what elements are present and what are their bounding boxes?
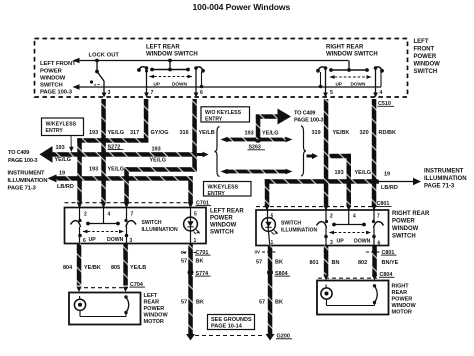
label 57 BK upper left [181,259,203,265]
see grounds box [208,315,255,330]
svg-text:6: 6 [200,90,203,96]
svg-text:WINDOW SWITCH: WINDOW SWITCH [326,52,378,58]
right switch interior contacts [317,210,384,246]
svg-text:193: 193 [245,131,254,137]
ground dashed link [195,335,264,337]
svg-text:DOWN: DOWN [172,82,187,87]
svg-text:4: 4 [108,212,111,218]
svg-text:YE/LG: YE/LG [262,131,279,137]
label switch illumination (left box) [142,220,178,233]
svg-text:TO C409: TO C409 [8,150,29,156]
svg-text:4: 4 [380,90,383,96]
svg-text:PAGE 100-3: PAGE 100-3 [8,158,37,164]
svg-text:1: 1 [194,238,197,244]
label 193 YE/LG right drop [335,170,372,176]
value label 316 YE/LB [180,130,215,136]
lockout switch [90,59,104,85]
svg-text:LB/RD: LB/RD [57,184,74,190]
svg-text:SWITCH: SWITCH [142,220,162,226]
svg-text:804: 804 [63,265,73,271]
label left rear window switch [146,45,198,58]
pin arrows into right switch [264,205,376,211]
label switch illumination (right box) [281,221,317,234]
svg-text:3: 3 [108,90,111,96]
svg-text:WINDOW: WINDOW [210,223,237,229]
connector C701 lower crossing [181,250,211,256]
connector C704 [77,282,145,288]
value label 802 BN/YE [358,260,399,266]
svg-text:POWER: POWER [414,54,437,60]
wire 193 YE/LG drop to right switch pin 4 [330,154,352,207]
connector crossing right 0V [255,250,277,255]
svg-text:ILLUMINATION: ILLUMINATION [281,228,317,234]
svg-text:YE/LG: YE/LG [150,158,167,164]
wire 316 YE/LB vertical from pin 6 [192,99,197,172]
svg-text:ILLUMINATION: ILLUMINATION [142,227,178,233]
svg-text:POWER: POWER [40,69,63,75]
lockout pin 3 [102,81,111,98]
svg-text:57: 57 [256,260,262,266]
svg-text:POWER: POWER [392,297,413,303]
svg-text:BN/YE: BN/YE [382,260,399,266]
svg-text:YE/LG: YE/LG [355,170,372,176]
value label 805 YE/LB [111,265,146,271]
svg-text:DOWN: DOWN [354,239,371,245]
svg-text:WINDOW: WINDOW [414,62,441,68]
svg-text:317: 317 [130,130,139,136]
label left rear power window switch [210,209,244,236]
svg-text:ILLUMINATION: ILLUMINATION [8,178,48,184]
pin arrows into right motor [323,275,377,280]
svg-text:LEFT REAR: LEFT REAR [210,209,244,215]
svg-text:YE/LB: YE/LB [130,265,146,271]
svg-text:RIGHT REAR: RIGHT REAR [392,211,430,217]
wire 804 YE/BK [77,244,82,286]
svg-text:REAR: REAR [392,290,408,296]
wire 193 YE/LG bus to C409 [51,152,193,157]
label 57 BK lower left [181,300,204,306]
svg-text:LEFT FRONT: LEFT FRONT [40,61,76,67]
wire from S263 up to C409 arrow [256,114,278,139]
svg-text:SWITCH: SWITCH [281,221,301,227]
svg-text:POWER: POWER [392,219,415,225]
wire 316 YE/LB horizontal run [124,167,197,172]
wire 19 LB/RD illumination rail (left) [55,176,193,181]
wire 57 BK (right switch ground) [268,246,273,335]
svg-text:W/O KEYLESS: W/O KEYLESS [205,110,242,116]
right rear motor [321,284,377,305]
svg-text:PAGE 71-3: PAGE 71-3 [8,186,37,192]
svg-text:6: 6 [83,238,86,244]
svg-text:193: 193 [152,147,161,153]
label 19 LB/RD right [381,172,398,192]
connector C801 dashed line [256,201,392,207]
arrow to C409 page 100-3 (top right) [278,109,292,125]
svg-text:57: 57 [181,259,187,265]
box w/keyless entry (middle) [204,182,252,197]
svg-text:YE/LB: YE/LB [199,130,215,136]
wire 19 LB/RD drop to switch pin 5 [188,176,193,203]
svg-text:2: 2 [330,214,333,220]
connector C804 [318,272,395,278]
svg-text:YE/LG: YE/LG [108,167,125,173]
wire 319 YE/BK (pin5 to switch pin 2) [324,99,329,207]
svg-text:WINDOW: WINDOW [144,313,169,319]
svg-text:TO C409: TO C409 [294,111,315,117]
svg-text:J: J [281,115,284,121]
svg-text:801: 801 [310,260,319,266]
svg-text:WINDOW SWITCH: WINDOW SWITCH [146,52,198,58]
svg-text:PAGE 10-14: PAGE 10-14 [211,324,243,330]
svg-text:POWER: POWER [144,306,165,312]
svg-text:193: 193 [56,145,65,151]
stub arrow from bus into option bracket [197,152,209,158]
connector C801 lower crossing [366,250,397,256]
right rear power window motor box [317,281,389,315]
box w/keyless entry (left) [42,118,84,152]
label 57 BK lower right [259,300,283,306]
label left front power window switch (right of box) [414,39,441,75]
svg-text:LEFT: LEFT [144,293,158,299]
svg-text:BK: BK [275,300,283,306]
svg-text:W/KEYLESS: W/KEYLESS [46,122,77,128]
pin 5 arrow [323,90,333,98]
wire 317 GY/OG vertical from pin 7 [144,99,149,143]
connector C510 dashed box (left front power window switch assembly) [35,39,408,98]
svg-text:805: 805 [111,265,120,271]
svg-text:INSTRUMENT: INSTRUMENT [424,169,464,175]
svg-text:7: 7 [131,212,134,218]
label left front power window switch (inside box) [40,61,76,96]
svg-text:UP: UP [89,237,97,243]
svg-text:RIGHT: RIGHT [392,284,410,290]
svg-text:193: 193 [335,170,344,176]
box w/o keyless entry [201,107,250,123]
svg-text:320: 320 [360,130,369,136]
svg-text:WINDOW: WINDOW [392,226,419,232]
svg-text:57: 57 [259,300,265,306]
svg-text:ILLUMINATION: ILLUMINATION [424,176,467,182]
svg-text:YE/BK: YE/BK [84,265,101,271]
svg-text:0V: 0V [255,250,262,255]
option bracket left [215,127,220,177]
pin 7 arrow [144,90,153,98]
left rear window switch (in master switch) [137,59,205,94]
svg-text:RIGHT REAR: RIGHT REAR [326,45,364,51]
svg-text:UP: UP [337,239,345,245]
svg-text:LOCK OUT: LOCK OUT [89,53,120,59]
bottom pin arrows out of right switch [267,246,377,252]
svg-text:319: 319 [312,130,321,136]
svg-text:SWITCH: SWITCH [40,83,63,89]
value label 317 GY/OG [130,130,169,136]
svg-text:ENTRY: ENTRY [208,191,226,197]
wire 19 LB/RD illumination rail (right) [265,179,379,184]
svg-text:LB/RD: LB/RD [381,185,398,191]
option bracket right [301,126,306,176]
pin arrows into left switch [77,203,193,209]
value label 804 YE/BK [63,265,101,271]
svg-text:MOTOR: MOTOR [144,319,164,325]
stub arrow right bracket to 193 drop [307,153,319,159]
svg-text:WINDOW: WINDOW [40,76,66,82]
label to C409 top right [294,111,323,124]
svg-text:WINDOW: WINDOW [392,303,417,309]
svg-text:LEFT REAR: LEFT REAR [146,45,180,51]
wire 317 GY/OG drop to switch pin 2 [77,138,82,203]
svg-text:SWITCH: SWITCH [414,69,438,75]
svg-text:193: 193 [89,167,98,173]
svg-text:DOWN: DOWN [351,82,366,87]
value label 193 YE/LG (upper) [89,130,124,136]
label right rear power window motor [392,284,417,316]
arrow to C409 page 100-3 (left) [40,146,53,163]
svg-text:193: 193 [89,130,98,136]
label to C409 [8,150,37,164]
wire 320 RD/BK (pin4 to switch pin 7) [372,99,377,207]
svg-text:316: 316 [180,130,189,136]
svg-text:802: 802 [358,260,367,266]
label left rear power window motor [144,293,169,325]
svg-text:J: J [46,153,49,159]
svg-text:4: 4 [353,214,356,220]
label 19 LB/RD left [57,171,74,191]
label 193 YE/LG (w/o keyless) [245,131,279,137]
left rear power window switch box [65,208,207,244]
wire rail A (lockout feed) [73,58,349,64]
label instrument illumination right [424,169,467,190]
label 193 YE/LG (bus mid) [150,147,167,164]
label right rear window switch [326,45,378,58]
svg-text:BK: BK [196,259,204,265]
wire 805 YE/LB [123,244,128,286]
svg-text:YE/LG: YE/LG [55,157,72,163]
splice S263 [248,136,266,150]
label 193 YE/LG lower left [89,167,124,173]
svg-text:LEFT: LEFT [414,39,429,45]
wire 57 BK (left switch ground) [188,244,193,335]
svg-text:100-004 Power Windows: 100-004 Power Windows [193,2,291,12]
svg-text:REAR: REAR [144,300,160,306]
svg-text:19: 19 [59,171,65,177]
left switch illumination lamp [184,208,200,244]
svg-text:DOWN: DOWN [107,237,124,243]
svg-text:7: 7 [151,90,154,96]
wire rail B (switch common) [73,84,382,90]
label instrument illumination left [8,171,48,192]
left rear power window motor box [69,293,141,325]
svg-text:19: 19 [384,172,390,178]
svg-text:YE/BK: YE/BK [333,130,350,136]
svg-text:UP: UP [154,82,161,87]
label 193 YE/LG (bus left) [55,145,72,163]
svg-text:PAGE 100-3: PAGE 100-3 [294,118,323,124]
svg-text:ENTRY: ENTRY [205,116,223,122]
svg-text:MOTOR: MOTOR [392,310,412,316]
svg-text:57: 57 [181,300,187,306]
label 57 BK upper right [256,260,283,266]
svg-text:SWITCH: SWITCH [392,234,416,240]
svg-text:POWER: POWER [210,216,233,222]
wire 802 BN/YE [372,246,377,277]
label right rear power window switch [392,211,430,240]
svg-text:3: 3 [130,238,133,244]
splice S804 [267,270,290,277]
svg-text:UP: UP [336,82,343,87]
value label 320 RD/BK [360,130,396,136]
svg-text:2: 2 [84,212,87,218]
svg-text:7: 7 [377,214,380,220]
right rear window switch (in master switch) [316,61,384,94]
svg-text:5: 5 [194,212,197,218]
ground left (S774 leg) [186,334,195,341]
connector C701 dashed line [65,200,212,206]
splice S272 [101,144,124,157]
pin arrows into left motor [76,287,128,292]
svg-text:6: 6 [378,241,381,247]
wire 317 GY/OG horizontal run [77,138,148,143]
wire 193 YE/LG (pin3 to S272 to pin4) [101,99,106,203]
wire 193 YE/LG w/o keyless path [221,137,293,143]
svg-text:BK: BK [196,300,204,306]
svg-text:3: 3 [330,240,333,246]
svg-text:FRONT: FRONT [414,47,435,53]
wire 316 YE/LB drop to switch pin 7 [124,167,129,203]
ground G200 [266,334,293,341]
connector C510 label [378,101,395,107]
left rear motor [74,295,128,316]
svg-text:PAGE 71-3: PAGE 71-3 [424,184,455,190]
svg-text:RD/BK: RD/BK [379,130,396,136]
svg-text:YE/LG: YE/LG [108,130,125,136]
svg-text:1: 1 [271,240,274,246]
svg-text:BN: BN [332,260,340,266]
svg-text:W/KEYLESS: W/KEYLESS [208,184,239,190]
wire w/keyless path [221,169,293,175]
left switch interior contacts [71,208,137,244]
right rear power window switch box [256,210,389,246]
thin line to right illumination arrow [379,178,421,186]
value label 319 YE/BK [312,130,350,136]
right switch illumination lamp [262,210,278,246]
wire 801 BN [324,246,329,277]
svg-text:5: 5 [330,90,333,96]
svg-text:BK: BK [275,260,283,266]
svg-text:GY/OG: GY/OG [151,130,169,136]
svg-text:SEE GROUNDS: SEE GROUNDS [211,317,252,323]
svg-text:INSTRUMENT: INSTRUMENT [8,171,46,177]
svg-text:SWITCH: SWITCH [210,230,234,236]
wire 19 LB/RD drop to right switch pin 5 [265,179,270,206]
splice S774 [188,270,211,277]
pin 6 arrow [194,90,203,98]
bottom pin arrows out of left switch [76,244,193,250]
svg-text:ENTRY: ENTRY [46,128,64,134]
value label 801 BN [310,260,340,266]
arrow instrument illumination (left) [48,174,57,182]
pin 4 arrow [373,90,382,98]
svg-text:PAGE 100-3: PAGE 100-3 [40,90,73,96]
